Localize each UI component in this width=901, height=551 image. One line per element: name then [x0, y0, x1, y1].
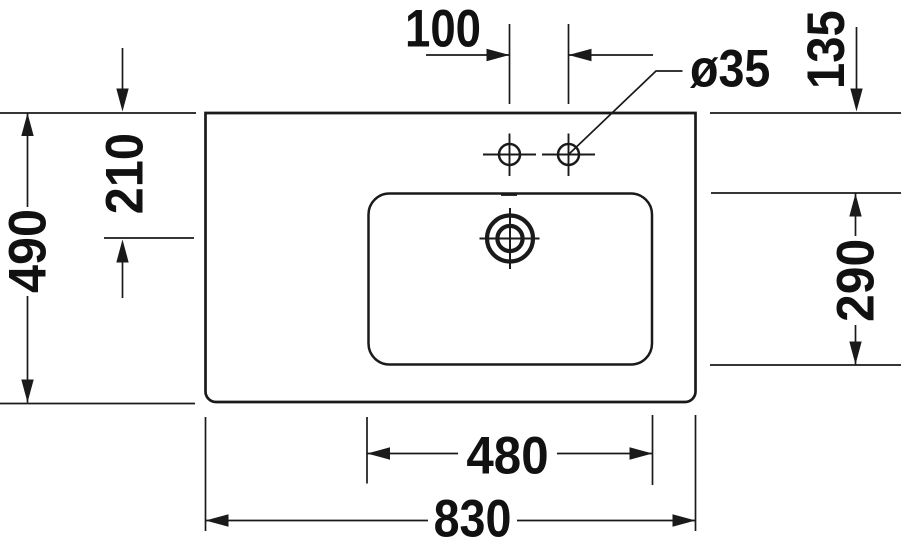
dimension 210 arrow up (to drain centerline): [116, 240, 128, 263]
dimension 480 arrow left: [367, 447, 390, 459]
dimension 100 arrow left: [569, 49, 592, 61]
dimension 490 arrow down: [21, 380, 33, 403]
centerline tick on basin top edge: [501, 194, 517, 196]
svg-text:ø35: ø35: [690, 39, 770, 98]
dimension 210 upper line: [122, 48, 124, 90]
svg-text:100: 100: [405, 0, 481, 58]
dimension 480 extension line right: [652, 415, 654, 485]
dimension 830 extension line right: [695, 415, 697, 531]
extension line drain centerline (210 bottom): [104, 237, 194, 239]
dimension 830 extension line left: [205, 417, 207, 531]
faucet hole right crosshair: [542, 154, 595, 156]
dimension 100 left line: [426, 54, 510, 56]
dimension 100 extension line left hole: [509, 24, 511, 104]
dimension 830 arrow right: [673, 514, 696, 526]
extension line top-right (ceramic top): [710, 112, 901, 114]
svg-text:290: 290: [825, 239, 885, 322]
drain outer circle: [487, 216, 533, 262]
dimension 135 line: [856, 27, 858, 90]
dimension 480 line right segment: [557, 453, 653, 455]
washbasin outer outline: [206, 113, 696, 402]
svg-text:210: 210: [95, 133, 154, 214]
dimension 290 line lower segment: [855, 325, 857, 365]
leader line for hole diameter: [569, 71, 683, 155]
faucet hole left circle: [499, 144, 520, 165]
dimension 830 line left segment: [206, 520, 429, 522]
dimension 210 lower line: [122, 262, 124, 298]
extension line bottom-left (ceramic bottom): [0, 403, 195, 405]
dimension 830 line right segment: [517, 520, 696, 522]
dimension 290 arrow down: [849, 342, 861, 365]
dimension 100 extension line right hole: [568, 24, 570, 104]
faucet hole left crosshair: [483, 154, 536, 156]
dimension 135 arrow down: [850, 89, 862, 112]
extension line top-left (ceramic top): [0, 112, 196, 114]
dimension 480 line left segment: [367, 453, 458, 455]
drain crosshair: [480, 238, 540, 240]
dimension 490 arrow up: [21, 113, 33, 136]
dimension 490 line upper segment: [27, 113, 29, 207]
inner basin outline: [369, 194, 653, 365]
dimension 290 line upper segment: [855, 194, 857, 237]
svg-text:135: 135: [796, 10, 855, 89]
svg-text:480: 480: [466, 426, 548, 485]
extension line right basin top: [711, 192, 901, 194]
dimension 100 arrow right: [487, 49, 510, 61]
dimension 210 arrow down (to top edge): [116, 89, 128, 112]
dimension 830 arrow left: [206, 514, 229, 526]
extension line right basin bottom: [710, 364, 901, 366]
faucet hole right circle: [558, 144, 579, 165]
dimension 480 arrow right: [630, 447, 653, 459]
dimension 100 right line: [569, 54, 654, 56]
svg-text:490: 490: [0, 209, 57, 293]
dimension 490 line lower segment: [27, 296, 29, 403]
dimension 480 extension line left: [366, 417, 368, 484]
dimension 290 arrow up: [849, 194, 861, 217]
drain inner circle: [497, 226, 522, 251]
svg-text:830: 830: [434, 489, 512, 548]
